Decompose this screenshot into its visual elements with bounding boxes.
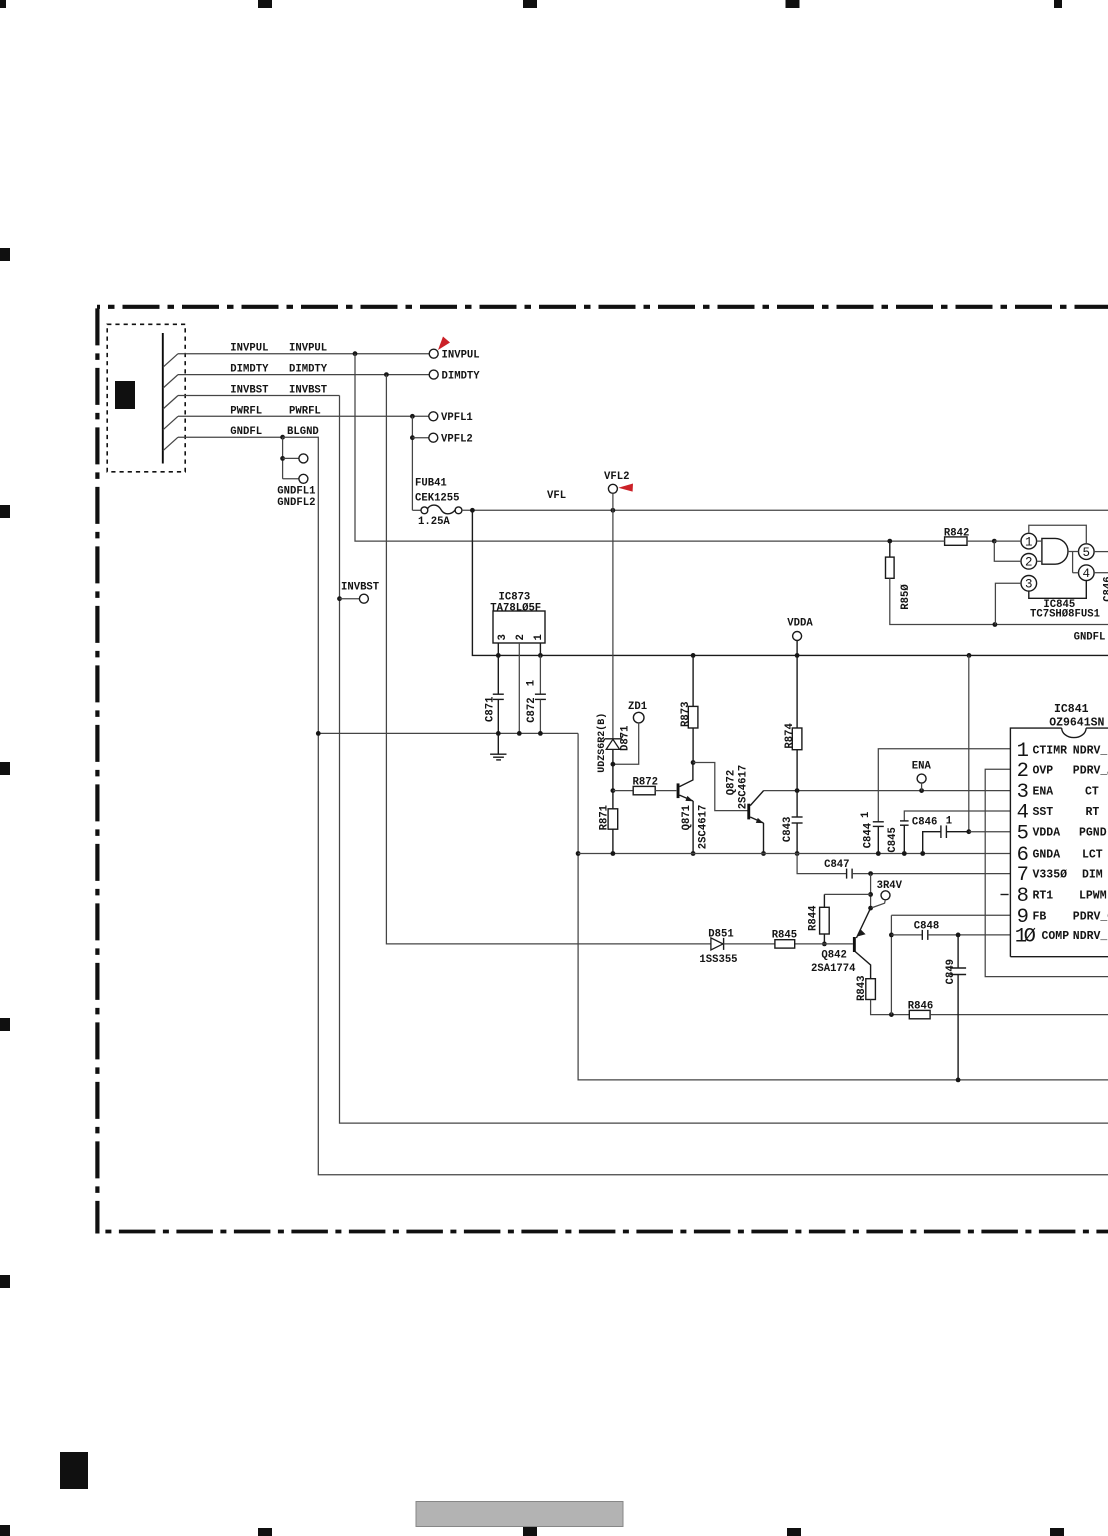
svg-text:TC7SHØ8FUS1: TC7SHØ8FUS1 bbox=[1030, 609, 1100, 621]
svg-text:CTIMR: CTIMR bbox=[1033, 744, 1068, 757]
svg-text:C843: C843 bbox=[782, 817, 794, 842]
svg-text:BLGND: BLGND bbox=[287, 426, 319, 438]
svg-text:R842: R842 bbox=[944, 528, 969, 540]
svg-text:DIMDTY: DIMDTY bbox=[442, 370, 481, 382]
svg-text:ENA: ENA bbox=[912, 761, 932, 773]
svg-text:R845: R845 bbox=[772, 930, 797, 942]
svg-text:5: 5 bbox=[1017, 822, 1029, 845]
svg-text:INVPUL: INVPUL bbox=[442, 350, 480, 362]
svg-text:ZD1: ZD1 bbox=[628, 701, 647, 713]
svg-text:C848: C848 bbox=[914, 921, 939, 933]
svg-text:ENA: ENA bbox=[1033, 786, 1054, 799]
svg-text:R844: R844 bbox=[808, 905, 820, 931]
svg-text:INVPUL: INVPUL bbox=[230, 343, 268, 355]
svg-text:C871: C871 bbox=[484, 697, 496, 722]
svg-text:FB: FB bbox=[1033, 910, 1047, 923]
svg-text:R874: R874 bbox=[784, 723, 796, 749]
svg-text:GNDA: GNDA bbox=[1033, 849, 1061, 862]
svg-text:LPWM: LPWM bbox=[1079, 890, 1107, 903]
svg-text:PGND: PGND bbox=[1079, 827, 1107, 840]
svg-text:1.25A: 1.25A bbox=[418, 516, 450, 528]
svg-text:C846: C846 bbox=[1103, 576, 1108, 601]
svg-text:UDZS6R2(B): UDZS6R2(B) bbox=[596, 713, 608, 773]
svg-text:INVPUL: INVPUL bbox=[289, 343, 327, 355]
svg-text:Q871: Q871 bbox=[681, 805, 693, 830]
svg-text:NDRV_D: NDRV_D bbox=[1073, 930, 1108, 943]
svg-text:CT: CT bbox=[1085, 786, 1099, 799]
svg-text:3R4V: 3R4V bbox=[877, 880, 903, 892]
svg-text:LCT: LCT bbox=[1082, 849, 1103, 862]
svg-text:3: 3 bbox=[497, 634, 509, 640]
svg-text:COMP: COMP bbox=[1042, 930, 1070, 943]
svg-text:VFL: VFL bbox=[547, 490, 566, 502]
svg-text:C846: C846 bbox=[912, 817, 937, 829]
svg-text:V335Ø: V335Ø bbox=[1033, 869, 1068, 882]
svg-text:1: 1 bbox=[860, 812, 872, 818]
svg-text:Q872: Q872 bbox=[726, 770, 738, 795]
svg-text:C847: C847 bbox=[824, 859, 849, 871]
svg-text:DIMDTY: DIMDTY bbox=[289, 364, 328, 376]
svg-text:R872: R872 bbox=[633, 777, 658, 789]
svg-text:1: 1 bbox=[946, 816, 952, 828]
svg-text:VPFL1: VPFL1 bbox=[441, 412, 473, 424]
svg-text:GNDFL2: GNDFL2 bbox=[277, 497, 315, 509]
svg-text:Ø: Ø bbox=[1024, 926, 1036, 949]
svg-text:INVBST: INVBST bbox=[289, 385, 328, 397]
svg-text:CEK1255: CEK1255 bbox=[415, 493, 460, 505]
svg-text:8: 8 bbox=[1017, 885, 1029, 908]
svg-text:1: 1 bbox=[1025, 535, 1033, 549]
svg-text:D851: D851 bbox=[708, 929, 733, 941]
svg-text:OVP: OVP bbox=[1033, 764, 1054, 777]
svg-text:2: 2 bbox=[1025, 556, 1033, 570]
svg-text:R871: R871 bbox=[598, 805, 610, 830]
svg-text:PDRV_C: PDRV_C bbox=[1073, 910, 1108, 923]
svg-text:7: 7 bbox=[1017, 864, 1029, 887]
svg-text:RT1: RT1 bbox=[1033, 890, 1054, 903]
svg-text:1: 1 bbox=[533, 634, 545, 640]
svg-text:C849: C849 bbox=[945, 959, 957, 984]
svg-text:2SC4617: 2SC4617 bbox=[698, 805, 710, 850]
svg-text:2SA1774: 2SA1774 bbox=[811, 963, 856, 975]
svg-text:SST: SST bbox=[1033, 806, 1054, 819]
svg-text:VDDA: VDDA bbox=[787, 618, 813, 630]
svg-text:INVBST: INVBST bbox=[230, 385, 269, 397]
svg-text:VDDA: VDDA bbox=[1033, 827, 1061, 840]
svg-text:R873: R873 bbox=[680, 702, 692, 727]
svg-text:GNDFL: GNDFL bbox=[1074, 632, 1106, 644]
svg-text:PWRFL: PWRFL bbox=[289, 405, 321, 417]
svg-text:4: 4 bbox=[1083, 567, 1091, 581]
svg-text:DIMDTY: DIMDTY bbox=[230, 364, 269, 376]
svg-text:FUB41: FUB41 bbox=[415, 478, 447, 490]
svg-text:D871: D871 bbox=[619, 726, 631, 751]
svg-text:2: 2 bbox=[1017, 760, 1029, 783]
svg-text:NDRV_B: NDRV_B bbox=[1073, 744, 1108, 757]
svg-text:R85Ø: R85Ø bbox=[900, 584, 912, 610]
svg-text:RT: RT bbox=[1086, 806, 1100, 819]
svg-text:C844: C844 bbox=[862, 822, 874, 848]
svg-text:1SS355: 1SS355 bbox=[699, 954, 737, 966]
svg-text:3: 3 bbox=[1025, 578, 1033, 592]
svg-text:1: 1 bbox=[525, 680, 537, 686]
svg-text:PWRFL: PWRFL bbox=[230, 405, 262, 417]
svg-text:PDRV_A: PDRV_A bbox=[1073, 764, 1108, 777]
svg-text:R846: R846 bbox=[908, 1001, 933, 1013]
svg-text:GNDFL: GNDFL bbox=[230, 426, 262, 438]
svg-text:GNDFL1: GNDFL1 bbox=[277, 485, 315, 497]
svg-text:C872: C872 bbox=[526, 697, 538, 722]
svg-text:TA78LØ5F: TA78LØ5F bbox=[490, 602, 541, 614]
svg-text:C845: C845 bbox=[887, 827, 899, 852]
svg-text:2: 2 bbox=[515, 634, 527, 640]
svg-text:VPFL2: VPFL2 bbox=[441, 433, 473, 445]
svg-text:INVBST: INVBST bbox=[341, 582, 380, 594]
svg-text:5: 5 bbox=[1083, 546, 1091, 560]
svg-text:IC841: IC841 bbox=[1054, 703, 1089, 716]
svg-text:4: 4 bbox=[1017, 802, 1029, 825]
svg-text:VFL2: VFL2 bbox=[604, 471, 629, 483]
svg-text:Q842: Q842 bbox=[821, 950, 846, 962]
svg-text:R843: R843 bbox=[856, 976, 868, 1001]
svg-text:2SC4617: 2SC4617 bbox=[738, 765, 750, 810]
svg-text:DIM: DIM bbox=[1082, 869, 1103, 882]
